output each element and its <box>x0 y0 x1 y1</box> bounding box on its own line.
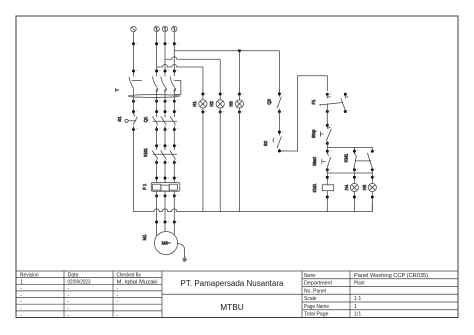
overload relay F1 <box>151 183 180 192</box>
svg-text:-: - <box>68 286 70 292</box>
svg-text:Total Page: Total Page <box>304 312 329 318</box>
ELCB toroid ellipse <box>128 95 180 98</box>
node dots top row <box>132 42 176 45</box>
node dots below KM1 <box>155 161 176 164</box>
wire H3 to rail <box>238 108 240 212</box>
svg-text:M1: M1 <box>142 234 147 240</box>
svg-text:Checked By: Checked By <box>117 273 142 279</box>
aux contact F1 <box>320 93 349 113</box>
node dots component bottoms <box>326 196 374 199</box>
svg-text:1/1: 1/1 <box>354 312 361 318</box>
breaker Q1 link <box>153 120 177 122</box>
svg-text:Page Name: Page Name <box>304 304 329 310</box>
coil KM1 <box>322 185 333 191</box>
lamp H5 <box>368 183 376 191</box>
node Q2 bottom <box>278 110 281 113</box>
breaker Q2 <box>277 95 281 111</box>
switch S2 <box>273 133 281 150</box>
svg-text:Name: Name <box>304 273 316 279</box>
svg-text:Start: Start <box>312 156 317 166</box>
lamp H2 <box>216 100 224 108</box>
svg-text:-: - <box>117 299 119 305</box>
svg-text:-: - <box>117 313 119 319</box>
svg-text:Panel Washing CCP (CR035): Panel Washing CCP (CR035) <box>354 273 428 279</box>
wire H1 to rail <box>202 108 204 212</box>
neutral rail <box>134 203 373 212</box>
wire N vertical top <box>133 32 135 76</box>
svg-text:Plant: Plant <box>354 281 365 287</box>
node dots below ellipse <box>132 100 176 103</box>
breaker Q1 pole L2 <box>161 116 167 125</box>
node H3 tap <box>238 49 241 52</box>
wire H2 drop <box>219 59 221 100</box>
terminal L2 <box>162 26 167 31</box>
svg-text:-: - <box>20 306 22 312</box>
svg-text:S2: S2 <box>263 140 268 146</box>
wires between ellipse and Q1 <box>133 89 135 115</box>
svg-text:1: 1 <box>20 279 23 285</box>
svg-text:KM1: KM1 <box>143 148 148 157</box>
wires components to rail <box>326 191 328 212</box>
wire Q2 feed drop <box>278 51 280 96</box>
breaker T trip box <box>174 81 181 95</box>
node Stop bottom <box>326 142 329 145</box>
svg-text:S1: S1 <box>117 116 122 122</box>
breaker Q1 pole L1 <box>152 116 158 125</box>
svg-text:-: - <box>20 299 22 305</box>
wire H1 drop <box>202 67 204 100</box>
svg-text:Department: Department <box>304 281 333 287</box>
svg-text:-: - <box>68 306 70 312</box>
node dots row above breaker T <box>132 70 176 73</box>
svg-text:No. Panel: No. Panel <box>304 288 326 294</box>
svg-text:-: - <box>68 299 70 305</box>
contactor KM1 pole L1 <box>152 151 158 160</box>
wire collect line <box>327 168 372 173</box>
svg-text:H4: H4 <box>344 184 349 190</box>
svg-text:KM1: KM1 <box>312 183 317 192</box>
svg-text:Revision: Revision <box>20 273 39 279</box>
node dots component tops <box>326 176 374 179</box>
svg-text:F1: F1 <box>311 99 316 105</box>
svg-text:MTBU: MTBU <box>220 303 244 312</box>
contactor KM1 link <box>153 153 177 155</box>
wires KM1 to F1 <box>156 162 158 183</box>
wires F1 to motor (hop over rail) <box>156 191 158 235</box>
node dots below start row <box>326 168 374 171</box>
terminal N <box>131 26 136 31</box>
node F1aux in <box>326 93 329 96</box>
svg-text:-: - <box>20 286 22 292</box>
wire tap L2 to H2 (hop over L3) <box>165 57 220 60</box>
wire F1aux to Stop <box>326 104 328 129</box>
svg-text:PT. Pamapersada Nusantara: PT. Pamapersada Nusantara <box>181 279 285 288</box>
wire KM1aux branch drop <box>353 147 355 152</box>
wire H2 to rail <box>219 108 221 212</box>
lamp H1 <box>199 100 207 108</box>
breaker Q1 pole L3 <box>170 116 176 125</box>
node branch dots <box>326 150 374 153</box>
svg-text:1:1: 1:1 <box>354 296 361 302</box>
wire tap L1 to H1 (hops over L2,L3) <box>157 65 203 68</box>
svg-text:02/09/2023: 02/09/2023 <box>68 279 91 285</box>
svg-text:-: - <box>117 286 119 292</box>
svg-text:-: - <box>20 313 22 319</box>
title block <box>16 271 458 318</box>
node S2 bottom <box>278 150 281 153</box>
svg-text:1: 1 <box>354 304 357 310</box>
svg-text:H2: H2 <box>209 101 214 107</box>
svg-text:-: - <box>68 313 70 319</box>
node F1aux out <box>326 110 329 113</box>
wire Stop to Start <box>326 141 328 153</box>
node Stop top <box>326 124 329 127</box>
lamp H4 <box>350 183 358 191</box>
wire branch line top <box>327 147 372 152</box>
wire control riser path <box>279 76 327 151</box>
svg-text:H1: H1 <box>192 101 197 107</box>
wire L1 vertical top <box>156 32 158 76</box>
pushbutton Start <box>322 153 331 169</box>
breaker T pole L1 <box>152 76 158 91</box>
lamp H3 <box>235 100 243 108</box>
svg-text:M3~: M3~ <box>162 241 171 246</box>
wire motor PE <box>178 243 185 258</box>
svg-text:-: - <box>117 293 119 299</box>
breaker T pole L2 <box>161 76 167 91</box>
node dots below Q1 <box>132 128 176 131</box>
node dots below F1 <box>155 194 176 197</box>
wire tap L3 to Q2 feed <box>174 50 279 52</box>
node dots above F1 <box>155 177 176 180</box>
motor M1 <box>154 232 177 255</box>
node dots above KM1 <box>155 144 176 147</box>
breaker T pole N <box>129 77 142 89</box>
svg-text:M. Iqbal Muzaki: M. Iqbal Muzaki <box>117 279 158 285</box>
svg-text:-: - <box>68 293 70 299</box>
node dots below lamps <box>201 110 241 113</box>
svg-text:F 1: F 1 <box>142 183 147 190</box>
svg-text:Q2: Q2 <box>266 98 271 104</box>
breaker T pole L3 <box>170 76 176 91</box>
pushbutton Stop <box>320 127 331 141</box>
svg-text:T: T <box>115 88 120 91</box>
svg-text:-: - <box>20 293 22 299</box>
node dots motor terminals <box>155 221 176 224</box>
svg-text:H5: H5 <box>362 184 367 190</box>
aux contact KM1 <box>354 153 373 169</box>
terminal L3 <box>172 26 177 31</box>
svg-text:Q1: Q1 <box>143 116 148 122</box>
svg-text:H3: H3 <box>228 101 233 107</box>
wire Q2 to S2 <box>278 110 280 135</box>
svg-text:Date: Date <box>68 273 79 279</box>
node Q2 top <box>278 92 281 95</box>
svg-text:KM1: KM1 <box>343 153 348 162</box>
svg-text:Stop: Stop <box>311 129 316 138</box>
pin number ticks <box>136 43 376 259</box>
switch S1 <box>125 114 137 128</box>
svg-text:Scale: Scale <box>304 296 317 302</box>
terminal L1 <box>154 26 159 31</box>
contactor KM1 pole L3 <box>170 151 176 160</box>
node dots above lamps <box>201 93 241 96</box>
wire H3 drop <box>238 51 240 100</box>
node S2 top <box>278 131 281 134</box>
node dots above Q1 <box>132 110 176 113</box>
wire drops to coil/lamps <box>326 173 328 185</box>
contactor KM1 pole L2 <box>161 151 167 160</box>
wires L1-3 down to KM1 <box>156 126 158 148</box>
wire L2 vertical top <box>164 32 166 76</box>
wire L3 vertical top <box>173 32 175 76</box>
PE terminal <box>183 258 186 261</box>
wire N down to rail <box>133 126 135 211</box>
